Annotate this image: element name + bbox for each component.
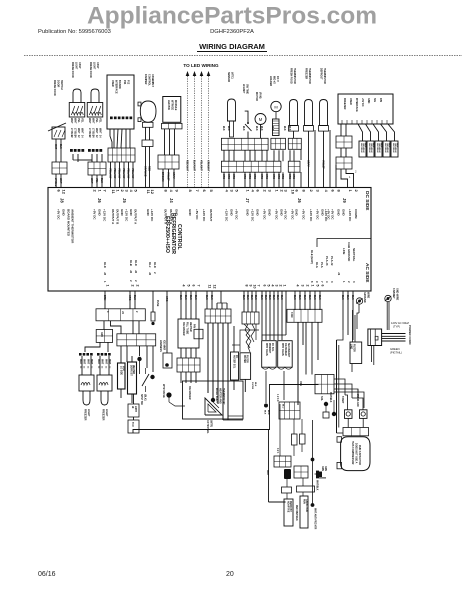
svg-text:FREEZER: FREEZER (305, 68, 308, 79)
defrost small box 2 (128, 420, 139, 433)
twisted wires (244, 324, 256, 352)
wires LK1 down (121, 346, 153, 372)
svg-text:ASSY: ASSY (78, 62, 81, 69)
wires board to M (295, 291, 320, 310)
freezer light lamp 1 (79, 375, 94, 421)
svg-text:FRESH FOOD: FRESH FOOD (53, 80, 56, 96)
svg-text:BRN: BRN (103, 295, 106, 300)
svg-text:GND: GND (129, 209, 133, 217)
lamp 1 extra labels (70, 135, 84, 138)
svg-text:WHT: WHT (74, 118, 77, 124)
ice maker water fill triangle (205, 398, 222, 415)
svg-text:RLA: RLA (315, 262, 319, 268)
svg-text:BLK: BLK (396, 143, 398, 148)
svg-text:12: 12 (213, 285, 217, 289)
svg-text:WHT: WHT (266, 470, 268, 476)
solenoid dot wire (329, 392, 336, 416)
svg-text:ORG: ORG (227, 174, 229, 179)
svg-text:WHT ANTI-FRZ HTR: WHT ANTI-FRZ HTR (314, 508, 317, 530)
svg-text:GND: GND (188, 209, 192, 217)
svg-text:LIMIT: LIMIT (134, 406, 136, 412)
svg-text:P/N: P/N (379, 98, 382, 102)
wires down from power block (372, 346, 374, 366)
wires H to assembly (181, 372, 196, 383)
fresh food light lamp 2 (87, 62, 103, 117)
freezer lamp wire labels (79, 359, 110, 369)
svg-text:WHT: WHT (77, 128, 80, 134)
svg-text:+12V DC: +12V DC (309, 209, 313, 222)
lamp 1 wire labels (70, 118, 84, 137)
resistor block R1 (118, 363, 126, 389)
extra wires to board mid (301, 130, 336, 188)
capacitor blob (284, 469, 291, 479)
svg-text:RLJ: RLJ (148, 262, 152, 268)
inline fuse row (359, 141, 398, 157)
svg-text:+12V DC: +12V DC (150, 209, 154, 222)
power cord block (368, 329, 382, 346)
damper control assembly (138, 74, 156, 127)
svg-text:GRD: GRD (100, 332, 102, 337)
svg-text:+5V DC: +5V DC (195, 209, 199, 220)
svg-text:ORG: ORG (260, 174, 262, 179)
twist connector (242, 312, 259, 324)
wires M others (303, 322, 318, 374)
svg-text:LIGHT: LIGHT (93, 62, 96, 70)
footer date 06/16 (38, 571, 56, 578)
ground screw 2 (385, 288, 399, 330)
auger motor M1 (255, 92, 266, 138)
wires board to connector E (207, 291, 227, 309)
svg-text:WHT: WHT (59, 178, 62, 184)
footer page 20 (226, 571, 234, 578)
run capacitor rect (300, 496, 308, 528)
svg-text:1: 1 (311, 285, 315, 287)
svg-text:BLK: BLK (388, 143, 390, 148)
fresh food light lamp 1 (69, 62, 85, 117)
svg-text:+5V DC: +5V DC (290, 209, 294, 220)
labels above strips (222, 126, 290, 131)
wires board to L modules (262, 291, 286, 340)
connector O 321 (274, 448, 291, 467)
thermistor 1 (289, 68, 299, 131)
svg-text:BLK: BLK (380, 143, 382, 148)
svg-text:BLK: BLK (260, 126, 262, 131)
svg-text:J1: J1 (337, 272, 341, 276)
connector P2 (294, 466, 308, 478)
svg-text:DEFROST: DEFROST (289, 501, 291, 512)
svg-text:BLK: BLK (242, 126, 244, 131)
svg-text:CONTROL: CONTROL (148, 74, 151, 86)
lamp connector block (88, 162, 106, 175)
svg-text:WHT/BLK: WHT/BLK (376, 143, 378, 153)
svg-text:BLK: BLK (254, 382, 256, 387)
svg-text:WIRING DIAGRAM: WIRING DIAGRAM (199, 42, 265, 51)
signal rect F (231, 352, 239, 380)
svg-text:SPST SW: SPST SW (140, 394, 143, 406)
svg-text:RED/WHT: RED/WHT (186, 160, 189, 172)
svg-text:YEL: YEL (95, 118, 98, 123)
svg-text:+5V DC: +5V DC (262, 209, 266, 220)
svg-text:FILTER: FILTER (353, 344, 355, 352)
connector strip A3 (288, 138, 301, 149)
svg-text:HOLDER: HOLDER (269, 76, 272, 86)
svg-text:FREEZER: FREEZER (102, 409, 105, 421)
svg-text:ORANGE: ORANGE (144, 166, 147, 177)
svg-text:BLK: BLK (222, 126, 224, 131)
svg-text:GRAY: GRAY (307, 160, 310, 167)
svg-text:CONTROL: CONTROL (176, 224, 182, 250)
power cord lines (382, 334, 406, 342)
svg-text:GND: GND (255, 209, 259, 217)
svg-text:OUTPUT A: OUTPUT A (111, 209, 115, 225)
svg-text:LIGHT: LIGHT (75, 62, 78, 70)
svg-text:GND: GND (61, 209, 65, 217)
resistor block R2 (128, 362, 137, 394)
svg-text:6: 6 (263, 285, 267, 287)
svg-text:6: 6 (192, 285, 196, 287)
svg-text:ORG/BLK: ORG/BLK (362, 143, 364, 153)
wires between interface connectors (341, 148, 346, 157)
wires lamps to connector (73, 154, 102, 162)
svg-text:SENSOR: SENSOR (227, 72, 230, 82)
svg-text:BLK: BLK (267, 410, 269, 415)
wires board to strip C (103, 291, 136, 309)
svg-text:VIOLET: VIOLET (322, 160, 325, 169)
svg-text:3 2 1: 3 2 1 (276, 448, 279, 454)
svg-text:VIOLET: VIOLET (167, 172, 170, 181)
svg-text:GRN: GRN (324, 466, 326, 471)
svg-text:WHT: WHT (81, 128, 84, 134)
ground screw 1 (356, 292, 369, 329)
LED bin collar (162, 123, 183, 128)
svg-text:CABINET: CABINET (392, 288, 395, 299)
door switch lower (140, 368, 149, 406)
svg-text:CAPACITOR: CAPACITOR (305, 499, 308, 513)
svg-text:4: 4 (271, 285, 275, 287)
svg-text:DC SIDE: DC SIDE (364, 191, 370, 211)
svg-text:(NTC): (NTC) (231, 72, 234, 79)
svg-text:OUTPUT: OUTPUT (209, 209, 213, 222)
wires strips B to board (222, 172, 294, 187)
svg-text:WIRE: WIRE (367, 292, 370, 299)
board bottom edge pin numbers (106, 285, 325, 289)
svg-text:BLK: BLK (194, 295, 196, 300)
svg-text:HEATER: HEATER (132, 365, 135, 374)
svg-text:BLU: BLU (133, 295, 136, 300)
svg-text:LED BIN: LED BIN (167, 100, 170, 110)
svg-text:12: 12 (62, 190, 67, 195)
svg-text:(TYP): (TYP) (393, 325, 400, 329)
wires LED bin connector to board (161, 169, 175, 188)
svg-text:HARNESS: HARNESS (159, 340, 162, 352)
svg-text:+12V DC: +12V DC (124, 209, 128, 222)
svg-text:LIGHT: LIGHT (87, 409, 90, 417)
adaptive defrost rect (284, 499, 293, 526)
svg-text:SW TINE: SW TINE (246, 84, 249, 94)
svg-text:+5V DC: +5V DC (234, 209, 238, 220)
svg-text:WHT: WHT (99, 128, 102, 134)
svg-text:ORG: ORG (265, 174, 267, 179)
svg-text:GROUND: GROUND (363, 292, 366, 303)
dispenser solenoid (320, 396, 329, 418)
svg-text:WHT/BLK: WHT/BLK (316, 480, 318, 491)
svg-text:(PIGTAIL): (PIGTAIL) (390, 351, 402, 355)
svg-text:GND: GND (267, 209, 271, 217)
connector strip A1 (221, 138, 268, 150)
svg-text:J6: J6 (297, 198, 302, 203)
thermistor 3 (319, 68, 329, 131)
svg-text:GND: GND (367, 98, 370, 104)
compressor body (341, 437, 370, 471)
svg-text:YELLOW: YELLOW (109, 168, 112, 179)
wires board AC side down (337, 291, 354, 433)
svg-text:+12V DC: +12V DC (250, 209, 254, 222)
svg-text:+5V DC: +5V DC (56, 209, 60, 220)
svg-text:ORG: ORG (272, 174, 274, 179)
svg-text:2: 2 (306, 285, 310, 287)
connector LK1 (117, 334, 156, 346)
svg-text:ORG: ORG (288, 174, 290, 179)
svg-text:4: 4 (182, 285, 186, 287)
svg-text:WTR VALVE: WTR VALVE (162, 384, 165, 398)
svg-text:WTR VALVE: WTR VALVE (265, 343, 268, 356)
connector strip B2 (288, 161, 300, 172)
control board ERF2500 outline (48, 188, 371, 292)
wires E down long (208, 323, 243, 420)
svg-text:NEUTRAL: NEUTRAL (352, 248, 356, 262)
wires box D to lamps (85, 342, 108, 352)
svg-text:ORG: ORG (222, 174, 224, 179)
svg-text:HI LIMIT: HI LIMIT (242, 84, 245, 94)
bottom labels (295, 505, 297, 521)
board connector group labels (59, 198, 347, 203)
svg-text:HTR: HTR (122, 366, 124, 371)
damper collar (142, 140, 153, 147)
svg-text:GRN/WHT: GRN/WHT (207, 160, 210, 172)
UI connector block (108, 148, 135, 162)
svg-text:WHT/BLK: WHT/BLK (329, 392, 331, 403)
svg-text:LINE: LINE (342, 248, 346, 255)
svg-text:FRESH FOOD: FRESH FOOD (89, 62, 92, 78)
svg-text:DEFROST: DEFROST (320, 68, 323, 80)
run cap bar 1 (282, 487, 292, 493)
connector strip C (96, 309, 145, 321)
svg-text:3: 3 (275, 285, 279, 287)
svg-text:ASSY: ASSY (96, 62, 99, 69)
svg-text:COMM: COMM (354, 209, 358, 219)
damper stem (146, 127, 150, 140)
svg-text:WHT/BLK: WHT/BLK (360, 143, 362, 153)
svg-text:P12: P12 (127, 80, 130, 85)
svg-text:OUTPUT A: OUTPUT A (133, 209, 137, 225)
svg-text:FREEZER: FREEZER (343, 98, 346, 110)
svg-text:START: START (341, 396, 344, 404)
svg-text:BOARD MOUNTED: BOARD MOUNTED (66, 209, 70, 237)
svg-text:PLA: PLA (320, 262, 324, 268)
defrost feed wire (266, 430, 286, 503)
svg-text:YELLOW: YELLOW (127, 168, 130, 179)
svg-text:WHT: WHT (79, 359, 81, 365)
svg-text:RLB: RLB (129, 260, 133, 266)
wires LED bin to connector (165, 129, 175, 155)
svg-text:5: 5 (187, 285, 191, 287)
logo AppliancePartsPros.com (87, 3, 377, 30)
svg-text:(BLK): (BLK) (144, 394, 147, 401)
svg-text:J2: J2 (134, 270, 138, 274)
svg-text:THERMISTOR: THERMISTOR (308, 68, 311, 84)
svg-text:GND: GND (174, 209, 178, 217)
svg-text:WHT: WHT (54, 144, 56, 150)
svg-text:ICE MKR: ICE MKR (163, 340, 166, 350)
door switch connector (52, 162, 67, 174)
sensor wire right (311, 420, 322, 530)
svg-text:J6: J6 (97, 198, 102, 203)
wire thermistor 1 to strip (293, 131, 295, 138)
wires F (233, 326, 235, 390)
svg-text:MODULE: MODULE (174, 100, 177, 111)
wire K down (244, 379, 246, 392)
svg-text:PLA J2: PLA J2 (330, 256, 334, 266)
svg-text:FUSE: FUSE (156, 300, 159, 307)
svg-text:SWITCH: SWITCH (60, 80, 63, 90)
mid zone horizontal jogs (232, 330, 286, 352)
svg-text:3: 3 (301, 285, 305, 287)
svg-text:AppliancePartsPros.com: AppliancePartsPros.com (87, 3, 377, 30)
svg-text:P/N: P/N (193, 324, 196, 328)
svg-text:1: 1 (106, 285, 110, 287)
svg-text:ORG: ORG (277, 174, 279, 179)
svg-text:GREEN: GREEN (390, 347, 400, 351)
overload protector (356, 394, 367, 418)
svg-text:DC: DC (235, 355, 237, 359)
door switch SW1 (48, 80, 66, 139)
wire door switch connector to board (54, 174, 62, 188)
connector strip A2 (271, 138, 286, 149)
svg-text:+12V DC: +12V DC (202, 209, 206, 222)
wire stub x150 (151, 291, 159, 325)
svg-text:CAB GROUND: CAB GROUND (347, 242, 351, 261)
svg-text:+5V DC: +5V DC (361, 98, 364, 107)
svg-text:GND: GND (341, 209, 345, 217)
svg-text:FILL TUBE: FILL TUBE (186, 322, 189, 335)
svg-text:12: 12 (150, 190, 155, 195)
svg-text:+5V DC: +5V DC (326, 209, 330, 220)
connector strip M (287, 309, 322, 322)
freezer interface board (338, 94, 393, 124)
small box under E (194, 329, 203, 339)
dispenser paddle sw (206, 398, 219, 434)
svg-text:AMBIENT THERMISTOR: AMBIENT THERMISTOR (70, 209, 74, 244)
svg-text:LINE: LINE (350, 344, 352, 350)
svg-text:M: M (274, 105, 277, 110)
svg-text:YEL/WHT: YEL/WHT (200, 160, 203, 171)
svg-text:BROWN: BROWN (161, 172, 164, 182)
wires G to H (181, 348, 196, 358)
svg-text:J9: J9 (342, 198, 347, 203)
wires UI connector to board (109, 162, 135, 188)
svg-text:GND WIRE: GND WIRE (396, 288, 399, 301)
svg-text:POWER CORD: POWER CORD (408, 325, 412, 345)
svg-text:1: 1 (283, 285, 287, 287)
label AC SIDE (364, 263, 370, 283)
svg-text:WHT/BLK: WHT/BLK (368, 143, 370, 153)
lamp 2 extra labels (88, 135, 102, 138)
svg-text:ICE MAKER: ICE MAKER (182, 322, 185, 336)
svg-text:GRAY: GRAY (172, 172, 175, 179)
svg-text:BOARD: BOARD (118, 80, 121, 89)
power cord labels (390, 321, 412, 355)
water filter rect K (240, 353, 256, 390)
svg-text:J4: J4 (169, 198, 174, 203)
lamp 2 wire labels (88, 118, 102, 137)
svg-text:FREEZER: FREEZER (84, 409, 87, 421)
left small column wire (133, 394, 135, 404)
svg-text:USER: USER (349, 98, 352, 105)
freezer light box D (96, 330, 112, 343)
svg-text:ASSEMBLY: ASSEMBLY (151, 74, 154, 87)
svg-text:ICE MAKER: ICE MAKER (188, 386, 191, 400)
evap fan motor M2 (269, 76, 281, 136)
svg-text:WHT: WHT (95, 128, 98, 134)
svg-text:YELLOW: YELLOW (122, 168, 125, 179)
user interface board (107, 75, 134, 129)
svg-text:M: M (259, 117, 263, 122)
svg-text:ACTR PADL: ACTR PADL (206, 420, 209, 434)
svg-text:YEL: YEL (77, 118, 80, 123)
connector E (205, 309, 231, 323)
svg-text:BLK: BLK (372, 143, 374, 148)
svg-text:J2: J2 (148, 272, 152, 276)
svg-text:ORG: ORG (248, 174, 250, 179)
ice maker connector H (177, 358, 200, 372)
compressor terminal bar (343, 418, 369, 435)
svg-text:SECONDARY: SECONDARY (287, 343, 290, 358)
wire M main down (297, 322, 299, 405)
svg-text:THERMISTOR: THERMISTOR (323, 68, 326, 84)
svg-text:LO SIDE: LO SIDE (120, 366, 122, 376)
svg-text:+12V DC: +12V DC (348, 209, 352, 222)
bottom wires (287, 478, 303, 499)
svg-text:FILTER: FILTER (246, 355, 248, 363)
svg-text:OVERLOAD: OVERLOAD (356, 394, 359, 407)
svg-text:06/16: 06/16 (38, 571, 56, 578)
svg-text:YEL: YEL (81, 118, 84, 123)
wire box1 to box2 (133, 417, 135, 420)
svg-text:J5: J5 (122, 198, 127, 203)
svg-text:M/D #2: M/D #2 (273, 76, 276, 84)
svg-text:4: 4 (296, 285, 300, 287)
svg-text:WHT: WHT (70, 118, 73, 124)
run cap bar 2 (297, 486, 315, 492)
svg-text:ORG/BLK: ORG/BLK (378, 143, 380, 153)
svg-text:YELLOW: YELLOW (131, 168, 134, 179)
svg-text:5: 5 (316, 285, 320, 287)
svg-text:THIS COMPRESSOR: THIS COMPRESSOR (351, 441, 354, 465)
svg-text:2: 2 (136, 285, 140, 287)
dispenser module L2 (278, 341, 293, 409)
svg-text:RLD: RLD (153, 262, 157, 268)
svg-text:RUN: RUN (303, 499, 305, 504)
lamp 1 pin squares (70, 149, 84, 152)
wires N fanout (334, 379, 364, 408)
svg-text:7: 7 (197, 285, 201, 287)
bottom exit labels (179, 295, 353, 300)
svg-text:BLK: BLK (283, 126, 285, 131)
svg-text:WHT/BLK: WHT/BLK (384, 143, 386, 153)
svg-text:ORG: ORG (243, 174, 245, 179)
wires board to twist (244, 291, 256, 312)
svg-text:+5V DC: +5V DC (92, 209, 96, 220)
